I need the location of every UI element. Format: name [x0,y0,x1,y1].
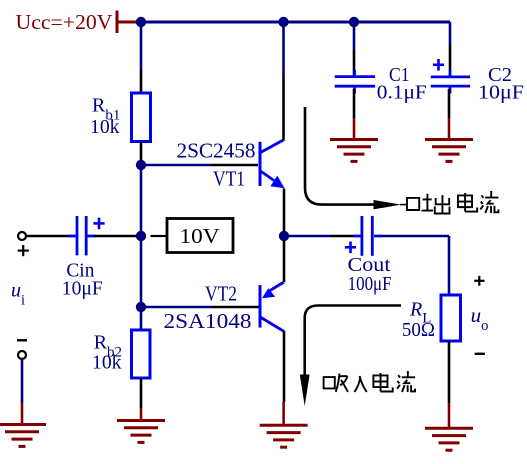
node junction at (141,165) [136,160,146,170]
node junction at (283.5,22) [278,17,288,27]
wire VT1 base [141,164,258,167]
resistor Rb2 [132,330,151,378]
node junction (141,307) [136,302,146,312]
capacitor C2 [431,70,470,94]
wire Ucc stub [117,21,141,24]
wire VT2 base [141,306,259,309]
wire Rb2 bottom [140,378,143,421]
node output junction (284,236) [279,231,289,241]
label C2 plus [433,59,444,71]
wire input to Cin [27,235,70,238]
svg-text:Ucc=+20V: Ucc=+20V [16,10,113,34]
label xi-ru-dian-liu (sink current) [324,371,415,392]
svg-text:100μF: 100μF [348,274,392,295]
label plus output [474,276,484,286]
wire C2 drop [449,22,452,45]
capacitor C1 [335,70,375,94]
node junction at (354,22) [349,17,359,27]
svg-text:50Ω: 50Ω [402,320,435,341]
wire RL bottom [448,341,451,428]
wire input bottom [21,359,24,425]
capacitor Cout [354,216,383,256]
annotation source-current arrow [305,107,406,209]
svg-text:10μF: 10μF [478,83,524,104]
wire C1 branch top [353,22,356,76]
ground input [0,425,46,447]
label Cout plus [345,242,356,254]
svg-text:2SC2458: 2SC2458 [177,139,256,163]
svg-text:Cout: Cout [348,255,392,276]
ground RL [425,428,473,450]
wire Cin to junction [94,235,138,238]
label plus input [18,245,29,256]
svg-text:ui: ui [11,280,25,309]
wire VT1 collector [282,22,285,140]
wire 10V lead [151,235,167,237]
ground C1 [330,140,378,162]
wire Cout to RL [381,236,449,295]
wire VT2 collector down [282,331,285,425]
label minus output [475,353,485,355]
ground C2 [425,140,473,162]
annotation sink-current arrow [300,306,401,407]
wire C1 bottom [353,89,356,140]
svg-text:VT1: VT1 [213,167,245,191]
svg-text:VT2: VT2 [205,282,237,306]
wire output to Cout [284,235,354,238]
svg-text:10μF: 10μF [62,279,103,300]
label tu-chu-dian-liu (source current) [407,191,498,214]
wire x141 upper [140,22,143,93]
svg-text:10k: 10k [90,116,120,138]
ground VT2 [260,425,308,447]
resistor RL [441,295,461,341]
wire emitters join [283,189,286,283]
transistor VT2 [260,282,284,331]
terminal input bottom [18,351,26,359]
transistor VT1 [260,140,285,189]
svg-text:0.1μF: 0.1μF [377,83,427,104]
svg-text:2SA1048: 2SA1048 [164,309,252,333]
wire x141 middle [140,165,143,330]
wire top bus [141,21,450,24]
ground Rb2 [117,421,165,443]
resistor Rb1 [132,93,151,142]
svg-text:10k: 10k [92,352,122,374]
svg-text:10V: 10V [180,224,220,248]
wire C2 bottom [448,89,451,140]
annotation 10V box [167,219,233,253]
label Cin plus [93,218,104,230]
node Ucc supply terminal bar [116,11,119,34]
label minus input [17,339,27,341]
node junction at (141,22) [136,17,146,27]
wire Rb1 bottom [140,142,143,166]
terminal input top [18,232,26,240]
svg-text:uo: uo [471,303,489,334]
capacitor Cin [69,216,96,255]
node junction (141,236) [136,231,146,241]
